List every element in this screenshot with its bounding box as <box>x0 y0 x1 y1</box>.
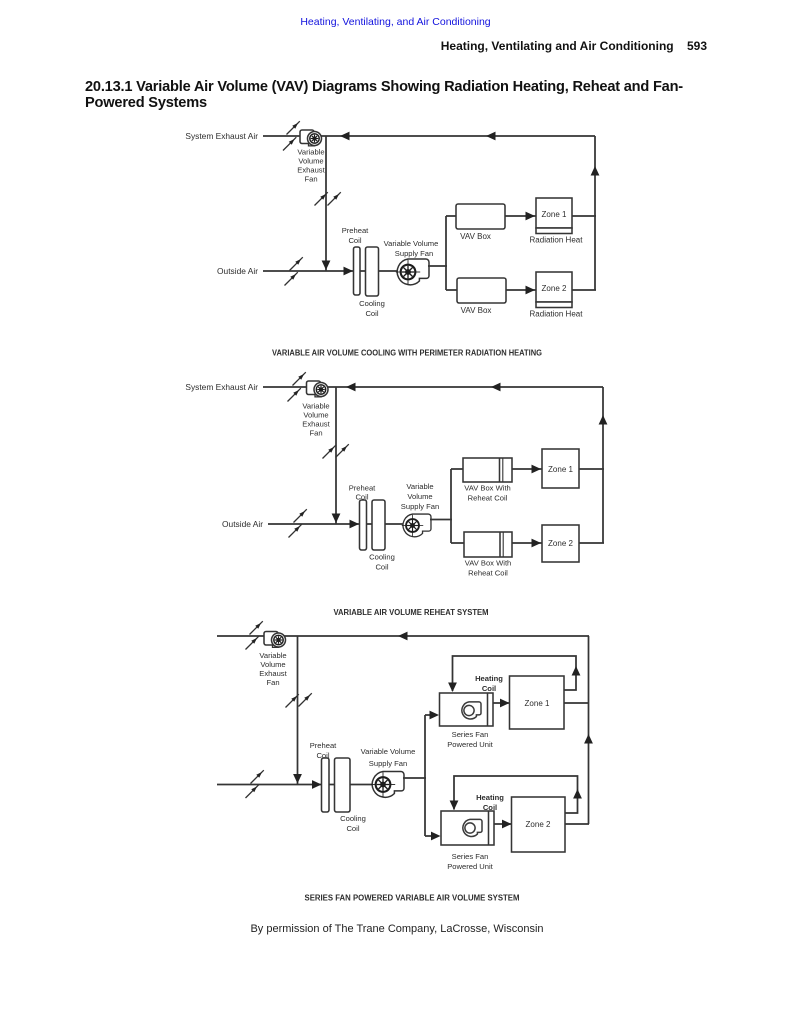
damper slash pair on exhaust line D1 <box>287 121 300 134</box>
svg-text:Supply Fan: Supply Fan <box>395 249 433 258</box>
label: Cooling Coil D3 <box>340 814 366 833</box>
VAV box with reheat coil 2 D2 <box>464 532 512 557</box>
label: VAV Box With Reheat Coil 2 D2 <box>465 559 512 578</box>
svg-text:System Exhaust Air: System Exhaust Air <box>185 131 258 141</box>
wire: unit 1 to Zone 1 D3 <box>493 702 510 704</box>
VAV box with reheat coil 1 D2 <box>463 458 512 482</box>
svg-text:Zone 1: Zone 1 <box>525 699 550 708</box>
flow arrow right into preheat coil D1 <box>344 267 354 276</box>
flow arrow up on recirculation loop 1 D3 <box>572 666 581 676</box>
damper slash pair on outside air line D2 <box>294 509 307 522</box>
svg-text:Fan: Fan <box>304 175 317 184</box>
wire: branch into series fan unit 1 <box>425 714 433 716</box>
label: Preheat Coil D2 <box>349 484 376 502</box>
svg-text:Zone 2: Zone 2 <box>526 820 551 829</box>
svg-text:VAV Box: VAV Box <box>460 232 491 241</box>
svg-text:System Exhaust Air: System Exhaust Air <box>185 382 258 392</box>
flow arrow down at mixing junction D2 <box>332 514 341 524</box>
wire: supply fan outlet D3 <box>403 777 426 779</box>
wire: outside air line D3 <box>217 784 376 786</box>
flow arrow left on exhaust line D1 (near fan) <box>340 132 350 141</box>
flow arrow into Zone 1 D1 <box>526 212 536 221</box>
wire: branch into series fan unit 2 <box>425 835 434 837</box>
svg-text:Cooling: Cooling <box>359 299 385 308</box>
svg-text:Radiation Heat: Radiation Heat <box>530 236 584 245</box>
wire: outside air line D2 <box>268 523 405 525</box>
svg-text:Coil: Coil <box>375 563 388 572</box>
heating coil divider unit 1 D3 <box>487 693 489 726</box>
fan: variable volume supply fan D1 <box>396 259 429 285</box>
flow arrow into series fan unit 2 <box>431 832 441 841</box>
preheat coil D2 <box>360 500 367 550</box>
wire: supply branch vertical D3 <box>424 715 426 836</box>
wire: unit 2 to Zone 2 D3 <box>494 823 512 825</box>
Zone 1 box D2 <box>542 449 579 488</box>
wire: supply branch vertical D1 <box>445 216 447 290</box>
flow arrow left on exhaust line D2 (near fan) <box>346 383 356 392</box>
wire: supply fan outlet D1 <box>428 265 447 267</box>
svg-text:Heating: Heating <box>475 674 503 683</box>
svg-text:Preheat: Preheat <box>349 484 376 493</box>
flow arrow left on exhaust line D1 (mid) <box>486 132 496 141</box>
wire: return riser D3 <box>588 636 590 824</box>
svg-text:Series Fan: Series Fan <box>452 730 489 739</box>
svg-text:Outside Air: Outside Air <box>222 519 263 529</box>
fan: variable volume supply fan D3 <box>371 771 404 797</box>
fan: variable volume exhaust fan D2 <box>307 381 329 397</box>
svg-text:Exhaust: Exhaust <box>259 669 287 678</box>
heating coil divider unit 2 D3 <box>488 811 490 845</box>
svg-text:Coil: Coil <box>482 684 496 693</box>
wire: branch to VAV box 1 D2 <box>451 468 463 470</box>
svg-text:SERIES FAN POWERED VARIABLE AI: SERIES FAN POWERED VARIABLE AIR VOLUME S… <box>305 894 520 903</box>
wire: Zone 2 to return riser D1 <box>572 289 596 291</box>
damper slash pair on return drop D3 <box>286 694 299 707</box>
label: Variable Volume Supply Fan D1 <box>384 239 439 258</box>
VAV box 2 D1 <box>457 278 506 303</box>
wire: recirculation loop 2 D3 <box>454 776 578 813</box>
preheat coil D1 <box>354 247 361 295</box>
svg-text:Preheat: Preheat <box>342 226 369 235</box>
wire: return drop vertical D1 <box>325 136 327 271</box>
svg-text:Series Fan: Series Fan <box>452 852 489 861</box>
svg-text:Supply Fan: Supply Fan <box>401 502 439 511</box>
label: VAV Box With Reheat Coil 1 D2 <box>464 484 511 503</box>
svg-text:Cooling: Cooling <box>369 553 395 562</box>
flow arrow right into preheat coil D2 <box>350 520 360 529</box>
wire: VAV 2 to Zone 2 D2 <box>512 542 542 544</box>
svg-text:Variable Volume: Variable Volume <box>384 239 439 248</box>
Zone 1 box D1 <box>536 198 572 228</box>
svg-text:Variable: Variable <box>259 651 286 660</box>
label: Cooling Coil D2 <box>369 553 395 572</box>
svg-text:Fan: Fan <box>309 429 322 438</box>
preheat coil D3 <box>322 758 330 812</box>
wire: exhaust duct top line D1 <box>263 135 595 137</box>
wire: return riser D2 <box>602 387 604 543</box>
svg-text:Zone 2: Zone 2 <box>542 284 567 293</box>
Zone 2 box D1 <box>536 272 572 302</box>
svg-text:Volume: Volume <box>407 492 432 501</box>
svg-text:Coil: Coil <box>346 824 359 833</box>
wire: Zone 1 to return riser D3 <box>564 702 589 704</box>
page header link <box>0 16 791 28</box>
flow arrow down into unit 1 top D3 <box>448 683 457 693</box>
wire: recirculation loop 1 D3 <box>453 656 577 691</box>
wire: return drop vertical D3 <box>297 636 299 785</box>
wire: branch to VAV box 2 D2 <box>451 542 464 544</box>
wire: return drop vertical D2 <box>335 387 337 524</box>
svg-text:VAV Box With: VAV Box With <box>465 559 512 568</box>
wire: exhaust duct top line D2 <box>263 386 603 388</box>
svg-text:Exhaust: Exhaust <box>302 420 330 429</box>
flow arrow into Zone 1 D3 <box>500 699 510 708</box>
series fan powered unit 1 box D3 <box>440 693 494 726</box>
svg-text:Radiation Heat: Radiation Heat <box>530 310 584 319</box>
flow arrow into Zone 2 D3 <box>502 820 512 829</box>
flow arrow into series fan unit 1 <box>430 711 440 720</box>
damper slash pair on outside air line D1 <box>290 257 303 270</box>
flow arrow into Zone 1 D2 <box>532 465 542 474</box>
wire: branch to VAV box 1 <box>446 215 456 217</box>
svg-text:Coil: Coil <box>365 309 378 318</box>
svg-text:Coil: Coil <box>483 803 497 812</box>
series fan powered unit 2 box D3 <box>441 811 494 845</box>
svg-text:Variable Volume: Variable Volume <box>361 747 416 756</box>
label: Variable Volume Exhaust Fan D1 <box>297 148 325 184</box>
radiation heat strip Zone 1 D1 <box>536 228 572 234</box>
wire: supply fan outlet D2 <box>430 519 452 521</box>
wire: Zone 1 to return riser D1 <box>572 215 596 217</box>
section heading <box>85 80 745 111</box>
svg-text:Volume: Volume <box>303 411 328 420</box>
VAV box 1 D1 <box>456 204 505 229</box>
label: Variable Volume Exhaust Fan D2 <box>302 402 330 438</box>
svg-text:VARIABLE AIR VOLUME REHEAT SYS: VARIABLE AIR VOLUME REHEAT SYSTEM <box>334 608 489 617</box>
flow arrow into Zone 2 D2 <box>532 539 542 548</box>
svg-text:Reheat Coil: Reheat Coil <box>468 494 508 503</box>
wire: branch to VAV box 2 <box>446 289 457 291</box>
fan: variable volume exhaust fan D3 <box>264 632 286 648</box>
label: Series Fan Powered Unit 2 D3 <box>447 852 493 871</box>
running head <box>0 39 707 53</box>
flow arrow right into preheat coil D3 <box>312 780 322 789</box>
Zone 1 box D3 <box>510 676 565 729</box>
svg-text:Zone 1: Zone 1 <box>542 210 567 219</box>
svg-text:Cooling: Cooling <box>340 814 366 823</box>
label: Heating Coil (unit 1) D3 <box>475 674 503 693</box>
label: Variable Volume Supply Fan D3 <box>361 747 416 768</box>
flow arrow up on recirculation loop 2 D3 <box>573 789 582 799</box>
svg-text:Reheat Coil: Reheat Coil <box>468 569 508 578</box>
flow arrow down at mixing junction D3 <box>293 774 302 784</box>
wire: VAV box 1 to Zone 1 <box>505 215 536 217</box>
label: Series Fan Powered Unit 1 D3 <box>447 730 493 749</box>
flow arrow down into unit 2 top D3 <box>450 801 459 811</box>
label: Preheat Coil D3 <box>310 741 337 760</box>
flow arrow up on return riser D1 <box>591 166 600 176</box>
svg-text:Zone 2: Zone 2 <box>548 539 573 548</box>
wire: outside air line D1 <box>263 270 400 272</box>
label: Preheat Coil D1 <box>342 226 369 245</box>
wire: Zone 1 to return riser D2 <box>579 468 604 470</box>
fan scroll inside unit 2 D3 <box>463 819 482 836</box>
damper slash pair on exhaust line D2 <box>293 372 306 385</box>
label: Cooling Coil D1 <box>359 299 385 318</box>
damper slash pair on return drop D1 <box>315 192 328 205</box>
flow arrow left on exhaust line D2 (mid) <box>491 383 501 392</box>
damper slash pair on exhaust line D3 <box>250 621 263 634</box>
svg-text:Variable: Variable <box>302 402 329 411</box>
wire: VAV box 2 to Zone 2 <box>506 289 536 291</box>
flow arrow left on exhaust line D3 <box>398 632 408 641</box>
Zone 2 box D2 <box>542 525 579 562</box>
damper slash pair on outside air line D3 <box>251 770 264 783</box>
wire: Zone 2 to return riser D3 <box>565 823 589 825</box>
svg-text:Coil: Coil <box>316 751 329 760</box>
svg-text:VARIABLE AIR VOLUME COOLING WI: VARIABLE AIR VOLUME COOLING WITH PERIMET… <box>272 349 542 358</box>
svg-text:Fan: Fan <box>266 678 279 687</box>
svg-text:Variable: Variable <box>297 148 324 157</box>
flow arrow up on return riser D2 <box>599 415 608 425</box>
svg-text:Volume: Volume <box>260 660 285 669</box>
svg-text:Preheat: Preheat <box>310 741 337 750</box>
svg-text:Variable: Variable <box>406 482 433 491</box>
label: Variable Volume Supply Fan D2 <box>401 482 439 511</box>
fan scroll inside unit 1 D3 <box>462 702 481 719</box>
fan: variable volume supply fan D2 <box>402 514 431 537</box>
wire: return riser D1 <box>594 136 596 290</box>
fan: variable volume exhaust fan D1 <box>300 130 322 146</box>
label: Heating Coil (unit 2) D3 <box>476 793 504 812</box>
Zone 2 box D3 <box>512 797 566 852</box>
radiation heat strip Zone 2 D1 <box>536 302 572 308</box>
wire: VAV 1 to Zone 1 D2 <box>512 468 542 470</box>
svg-text:Powered Unit: Powered Unit <box>447 740 493 749</box>
wire: exhaust duct top line D3 <box>217 635 589 637</box>
flow arrow up on return riser D3 <box>584 734 593 744</box>
svg-text:Coil: Coil <box>355 493 368 502</box>
svg-text:Powered Unit: Powered Unit <box>447 862 493 871</box>
svg-text:Exhaust: Exhaust <box>297 166 325 175</box>
flow arrow down at mixing junction D1 <box>322 261 331 271</box>
footer credit <box>0 923 791 935</box>
damper slash pair on return drop D2 <box>323 445 336 458</box>
label: Variable Volume Exhaust Fan D3 <box>259 651 287 687</box>
svg-text:VAV Box With: VAV Box With <box>464 484 511 493</box>
svg-text:Coil: Coil <box>348 236 361 245</box>
wire: Zone 2 to return riser D2 <box>579 542 604 544</box>
svg-text:Supply Fan: Supply Fan <box>369 759 407 768</box>
flow arrow into Zone 2 D1 <box>526 286 536 295</box>
svg-text:Volume: Volume <box>298 157 323 166</box>
svg-text:Zone 1: Zone 1 <box>548 465 573 474</box>
wire: supply branch vertical D2 <box>450 469 452 543</box>
svg-text:Heating: Heating <box>476 793 504 802</box>
svg-text:VAV Box: VAV Box <box>461 306 492 315</box>
svg-text:Outside Air: Outside Air <box>217 266 258 276</box>
